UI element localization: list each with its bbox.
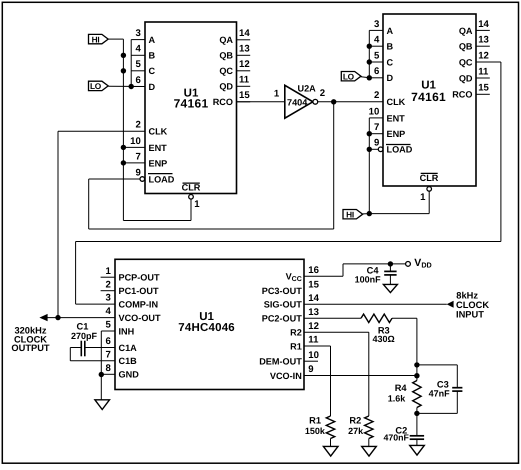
svg-text:4: 4 <box>374 35 380 46</box>
svg-text:QA: QA <box>219 35 233 45</box>
svg-text:470nF: 470nF <box>383 432 409 442</box>
svg-text:15: 15 <box>478 83 489 94</box>
svg-text:PC2-OUT: PC2-OUT <box>262 314 302 324</box>
svg-text:QC: QC <box>219 66 233 76</box>
svg-text:RCO: RCO <box>213 97 233 107</box>
svg-text:RCO: RCO <box>452 90 472 100</box>
svg-text:ENP: ENP <box>149 158 168 168</box>
svg-text:12: 12 <box>478 50 489 61</box>
svg-text:QB: QB <box>459 42 473 52</box>
svg-text:C: C <box>387 57 394 67</box>
svg-text:3: 3 <box>374 19 379 30</box>
svg-text:74161: 74161 <box>411 90 446 104</box>
svg-text:VCO-IN: VCO-IN <box>270 371 302 381</box>
svg-text:6: 6 <box>374 66 379 77</box>
svg-text:LOAD: LOAD <box>149 174 175 184</box>
svg-text:QD: QD <box>219 82 233 92</box>
svg-text:2: 2 <box>320 88 325 99</box>
svg-text:14: 14 <box>308 293 319 304</box>
svg-text:150k: 150k <box>305 426 326 436</box>
svg-text:OUTPUT: OUTPUT <box>11 343 50 353</box>
svg-text:CLOCK: CLOCK <box>456 300 489 310</box>
svg-text:2: 2 <box>105 279 110 290</box>
svg-text:CLK: CLK <box>387 97 406 107</box>
svg-text:10: 10 <box>308 350 319 361</box>
svg-text:CLR: CLR <box>420 173 439 183</box>
svg-text:2: 2 <box>135 120 140 131</box>
svg-text:6: 6 <box>105 336 110 347</box>
svg-text:74HC4046: 74HC4046 <box>178 322 235 334</box>
svg-text:100nF: 100nF <box>355 275 382 285</box>
svg-text:14: 14 <box>478 19 489 30</box>
svg-text:HI: HI <box>346 209 354 219</box>
svg-text:1: 1 <box>420 192 426 203</box>
svg-text:3: 3 <box>105 293 110 304</box>
svg-text:7: 7 <box>374 122 379 133</box>
svg-text:5: 5 <box>105 320 111 331</box>
svg-text:1: 1 <box>274 89 280 100</box>
svg-text:LOAD: LOAD <box>387 145 413 155</box>
svg-text:4: 4 <box>135 44 141 55</box>
svg-text:7: 7 <box>105 349 110 360</box>
svg-text:4: 4 <box>105 306 111 317</box>
svg-text:1: 1 <box>105 266 111 277</box>
svg-text:C1B: C1B <box>119 356 138 366</box>
svg-text:QA: QA <box>459 26 473 36</box>
svg-text:2: 2 <box>374 90 379 101</box>
svg-text:11: 11 <box>478 66 489 77</box>
svg-text:13: 13 <box>308 307 319 318</box>
svg-text:9: 9 <box>374 138 379 149</box>
svg-text:B: B <box>387 42 394 52</box>
svg-text:ENT: ENT <box>149 143 168 153</box>
svg-text:5: 5 <box>135 59 141 70</box>
svg-text:D: D <box>149 82 156 92</box>
svg-text:7: 7 <box>135 151 140 162</box>
svg-text:GND: GND <box>119 370 140 380</box>
svg-text:7404: 7404 <box>287 97 308 107</box>
svg-text:11: 11 <box>308 335 319 346</box>
svg-text:9: 9 <box>308 364 313 375</box>
svg-text:74161: 74161 <box>174 97 209 111</box>
svg-text:SIG-OUT: SIG-OUT <box>264 300 302 310</box>
svg-text:16: 16 <box>308 265 319 276</box>
svg-text:27k: 27k <box>348 426 364 436</box>
svg-text:ENP: ENP <box>387 129 406 139</box>
svg-text:11: 11 <box>239 75 250 86</box>
svg-text:270pF: 270pF <box>71 331 98 341</box>
svg-text:INPUT: INPUT <box>456 310 484 320</box>
svg-text:HI: HI <box>92 34 100 44</box>
svg-text:A: A <box>149 35 156 45</box>
svg-text:VCO-OUT: VCO-OUT <box>119 313 162 323</box>
svg-text:LO: LO <box>90 81 102 91</box>
svg-text:COMP-IN: COMP-IN <box>119 300 159 310</box>
svg-text:14: 14 <box>239 28 250 39</box>
svg-text:CLK: CLK <box>149 127 168 137</box>
svg-text:A: A <box>387 26 394 36</box>
svg-text:CLR: CLR <box>182 182 201 192</box>
svg-text:R2: R2 <box>290 328 302 338</box>
svg-text:QD: QD <box>459 73 473 83</box>
svg-text:5: 5 <box>374 50 380 61</box>
svg-text:B: B <box>149 51 156 61</box>
svg-text:10: 10 <box>130 136 141 147</box>
svg-text:C: C <box>149 66 156 76</box>
svg-text:15: 15 <box>239 90 250 101</box>
svg-text:LO: LO <box>343 71 355 81</box>
svg-text:430Ω: 430Ω <box>372 334 394 344</box>
svg-text:8kHz: 8kHz <box>456 290 478 300</box>
svg-text:10: 10 <box>369 106 380 117</box>
svg-text:13: 13 <box>239 44 250 55</box>
svg-text:INH: INH <box>119 326 135 336</box>
svg-text:PC1-OUT: PC1-OUT <box>119 286 159 296</box>
svg-text:8: 8 <box>105 363 111 374</box>
svg-text:R1: R1 <box>290 341 302 351</box>
svg-text:PCP-OUT: PCP-OUT <box>119 273 160 283</box>
svg-text:C1: C1 <box>77 321 89 331</box>
svg-text:QC: QC <box>459 57 473 67</box>
svg-text:QB: QB <box>219 51 233 61</box>
svg-text:12: 12 <box>239 59 250 70</box>
svg-text:U2A: U2A <box>298 83 317 93</box>
svg-text:ENT: ENT <box>387 113 406 123</box>
svg-text:DEM-OUT: DEM-OUT <box>259 357 302 367</box>
svg-text:R4: R4 <box>395 383 408 393</box>
svg-text:15: 15 <box>308 279 319 290</box>
svg-text:13: 13 <box>478 35 489 46</box>
svg-text:R2: R2 <box>349 415 361 425</box>
svg-text:C1A: C1A <box>119 343 138 353</box>
svg-text:1: 1 <box>194 199 200 210</box>
svg-text:6: 6 <box>135 75 140 86</box>
svg-text:9: 9 <box>135 167 140 178</box>
svg-text:3: 3 <box>135 28 140 39</box>
svg-text:D: D <box>387 73 394 83</box>
svg-text:1.6k: 1.6k <box>388 393 407 403</box>
svg-text:PC3-OUT: PC3-OUT <box>262 286 302 296</box>
svg-text:12: 12 <box>308 321 319 332</box>
svg-text:R1: R1 <box>309 415 321 425</box>
svg-text:47nF: 47nF <box>429 389 451 399</box>
